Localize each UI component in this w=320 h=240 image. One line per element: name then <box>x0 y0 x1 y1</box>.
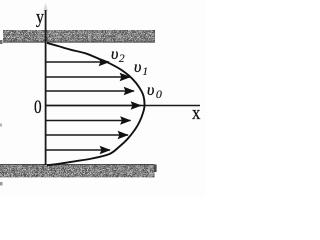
velocity arrow row1 <box>46 61 109 63</box>
label x <box>192 103 200 125</box>
wall bottom right nub <box>154 165 157 173</box>
velocity arrow row3 <box>46 90 134 92</box>
label v0 <box>147 82 162 100</box>
label v1 <box>134 59 148 77</box>
scan speck left edge 2 <box>0 124 2 127</box>
velocity arrow row5 <box>46 120 130 122</box>
y-axis <box>45 10 47 165</box>
wall top (stippled plate) <box>3 30 155 43</box>
velocity arrow row6 <box>46 134 128 136</box>
velocity arrow row4 (on x-axis) <box>46 105 141 107</box>
x-axis <box>46 105 200 107</box>
scan speck left edge 3 <box>0 182 3 186</box>
wall bottom (stippled plate) <box>0 164 155 177</box>
label 0 <box>34 97 42 119</box>
label v2 <box>111 46 125 64</box>
scan speck left edge 1 <box>0 40 3 44</box>
y-axis arrowhead (faded) <box>43 3 48 11</box>
velocity arrow row7 <box>46 149 110 151</box>
velocity profile curve <box>47 43 145 165</box>
velocity arrow row2 <box>46 76 130 78</box>
label y <box>36 7 44 29</box>
